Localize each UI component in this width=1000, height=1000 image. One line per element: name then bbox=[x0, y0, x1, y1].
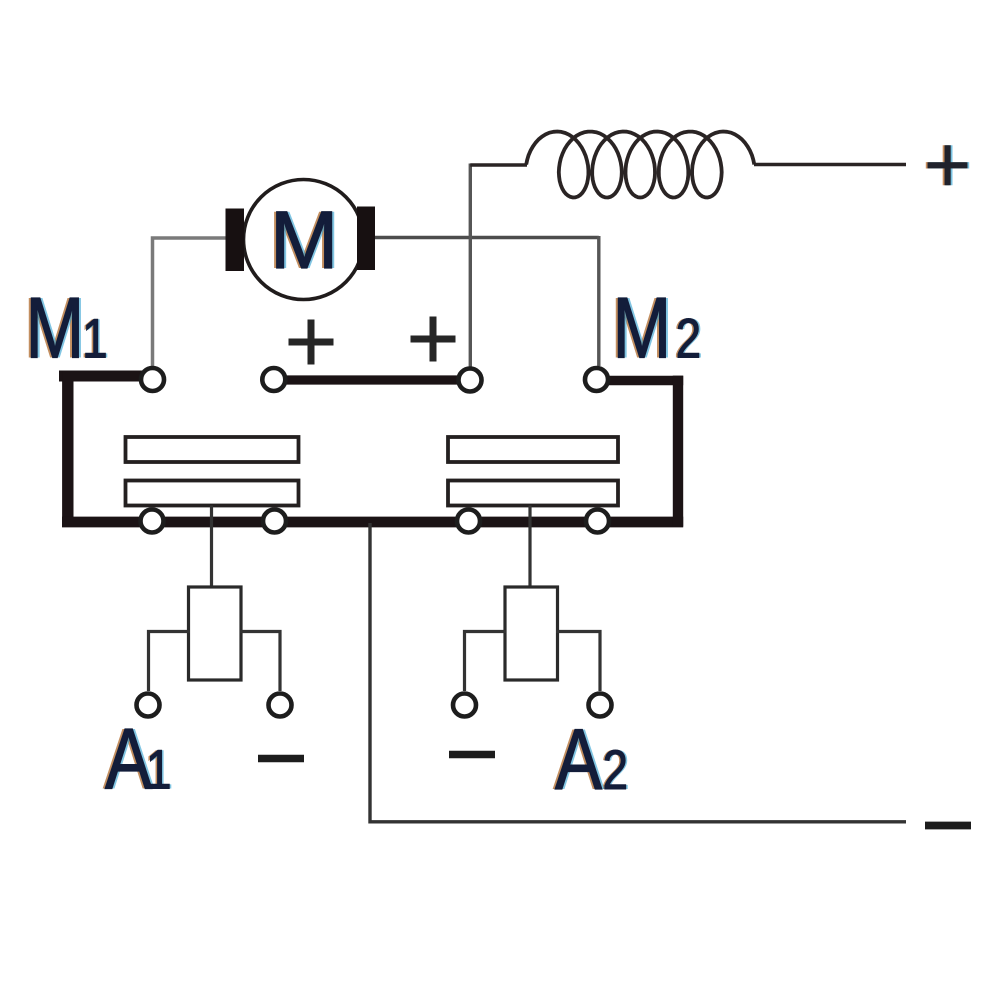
terminal T8 bbox=[586, 510, 609, 533]
minus supply (-) bottom right bbox=[925, 822, 971, 830]
plus sign right (above T3) bbox=[411, 317, 456, 362]
terminal T6 bbox=[263, 510, 286, 533]
wire inductor left lead vertical down to + terminal bbox=[469, 164, 472, 368]
svg-text:1: 1 bbox=[146, 738, 172, 800]
minus label near A2 bbox=[449, 751, 495, 759]
wire center node down and right to minus supply bbox=[370, 523, 906, 822]
thick bus: left vertical bbox=[62, 371, 73, 527]
motor M circle bbox=[244, 180, 364, 300]
label A1 bbox=[103, 711, 174, 807]
motor brush left bbox=[226, 209, 245, 272]
motor label M bbox=[267, 195, 341, 286]
terminal T3 bbox=[459, 369, 482, 392]
contact plate right lower bbox=[448, 481, 618, 506]
thick bus: bridge bar T2-T3 bbox=[274, 375, 470, 384]
terminal T5 bbox=[141, 510, 164, 533]
terminal T2 bbox=[262, 368, 285, 391]
contact plate left lower bbox=[126, 481, 299, 506]
svg-text:1: 1 bbox=[82, 307, 108, 369]
plus sign supply (+) top right bbox=[926, 145, 969, 185]
wire K2 right branch bbox=[556, 632, 600, 692]
relay coil K1 bbox=[189, 587, 242, 680]
wire K2 left branch bbox=[465, 632, 507, 692]
terminal C3 bbox=[453, 694, 476, 717]
wire stub lower plate right to coil K2 bbox=[528, 506, 531, 589]
thick bus: bottom bar bbox=[62, 517, 683, 528]
svg-text:2: 2 bbox=[603, 739, 629, 801]
terminal C2 bbox=[269, 694, 292, 717]
thick bus: left top bar bbox=[59, 371, 142, 382]
label M2 bbox=[610, 280, 703, 376]
motor brush right bbox=[357, 207, 375, 271]
wire motor right lead to node at x599 bbox=[374, 236, 599, 239]
svg-text:M: M bbox=[270, 195, 338, 286]
terminal C1 (A1) bbox=[137, 694, 160, 717]
thick bus: right vertical bbox=[673, 376, 683, 527]
minus label near A1 bbox=[258, 755, 304, 762]
wire vertical down to terminal M2 bbox=[597, 236, 600, 366]
wire K1 left branch bbox=[149, 632, 191, 692]
contact plate right upper bbox=[448, 437, 618, 462]
terminal T7 bbox=[457, 510, 480, 533]
svg-text:M: M bbox=[613, 280, 672, 376]
terminal T4 (M2) bbox=[585, 368, 608, 391]
svg-text:A: A bbox=[555, 711, 603, 807]
label A2 bbox=[553, 711, 631, 807]
inductor L1 coil bbox=[526, 132, 754, 198]
plus sign left (above T2) bbox=[289, 320, 334, 365]
thick bus: right top bar bbox=[597, 376, 683, 385]
wire motor left lead (gray) to terminal M1 bbox=[153, 238, 228, 366]
wire stub lower plate left to coil K1 bbox=[210, 506, 213, 589]
terminal C4 (A2) bbox=[589, 694, 612, 717]
svg-text:2: 2 bbox=[676, 307, 702, 369]
wire K1 right branch bbox=[240, 632, 280, 692]
relay coil K2 bbox=[505, 587, 558, 680]
terminal T1 (M1) bbox=[141, 368, 164, 391]
contact plate left upper bbox=[126, 437, 299, 462]
label M1 bbox=[23, 280, 110, 376]
svg-text:M: M bbox=[26, 280, 85, 376]
inductor L1 leads bbox=[470, 163, 906, 167]
